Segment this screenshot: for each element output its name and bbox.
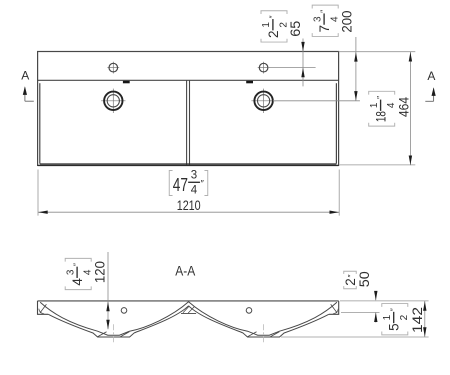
svg-text:″: ″ xyxy=(268,15,278,18)
svg-text:1210: 1210 xyxy=(177,197,201,213)
svg-text:″: ″ xyxy=(72,263,82,266)
svg-text:A: A xyxy=(427,69,435,83)
svg-text:″: ″ xyxy=(346,274,356,277)
svg-text:″: ″ xyxy=(319,10,329,13)
svg-text:3: 3 xyxy=(65,269,76,275)
svg-text:120: 120 xyxy=(92,261,108,283)
svg-text:1: 1 xyxy=(261,22,272,28)
svg-text:142: 142 xyxy=(409,307,425,333)
svg-text:1: 1 xyxy=(369,102,380,108)
svg-text:4: 4 xyxy=(70,278,85,286)
svg-text:7: 7 xyxy=(317,25,332,33)
svg-text:65: 65 xyxy=(287,20,303,36)
svg-text:464: 464 xyxy=(396,97,412,117)
svg-text:5: 5 xyxy=(387,323,402,331)
svg-text:3: 3 xyxy=(191,169,197,181)
svg-text:50: 50 xyxy=(356,271,372,287)
svg-text:″: ″ xyxy=(375,96,385,99)
svg-text:18: 18 xyxy=(374,111,389,122)
svg-text:A-A: A-A xyxy=(175,263,196,279)
svg-text:4: 4 xyxy=(191,184,198,196)
svg-text:″: ″ xyxy=(201,178,205,189)
svg-text:A: A xyxy=(21,69,29,83)
svg-text:47: 47 xyxy=(173,175,188,195)
svg-text:2: 2 xyxy=(266,31,281,39)
svg-text:200: 200 xyxy=(339,10,355,32)
svg-text:3: 3 xyxy=(312,16,323,22)
svg-text:″: ″ xyxy=(388,308,398,311)
svg-text:1: 1 xyxy=(382,314,393,320)
